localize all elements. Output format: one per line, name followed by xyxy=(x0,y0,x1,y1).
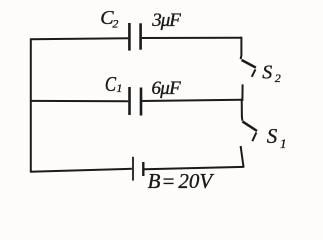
svg-text:C: C xyxy=(105,72,117,96)
svg-text:6μF: 6μF xyxy=(152,78,182,99)
svg-text:=: = xyxy=(161,169,175,193)
svg-text:B: B xyxy=(148,169,161,193)
svg-text:S: S xyxy=(262,62,272,84)
svg-text:3μF: 3μF xyxy=(151,10,181,31)
svg-text:1: 1 xyxy=(280,136,287,151)
svg-text:2: 2 xyxy=(112,16,118,30)
svg-text:1: 1 xyxy=(116,81,122,95)
svg-text:S: S xyxy=(267,124,278,148)
svg-text:2: 2 xyxy=(275,71,281,85)
svg-text:20V: 20V xyxy=(178,169,214,193)
